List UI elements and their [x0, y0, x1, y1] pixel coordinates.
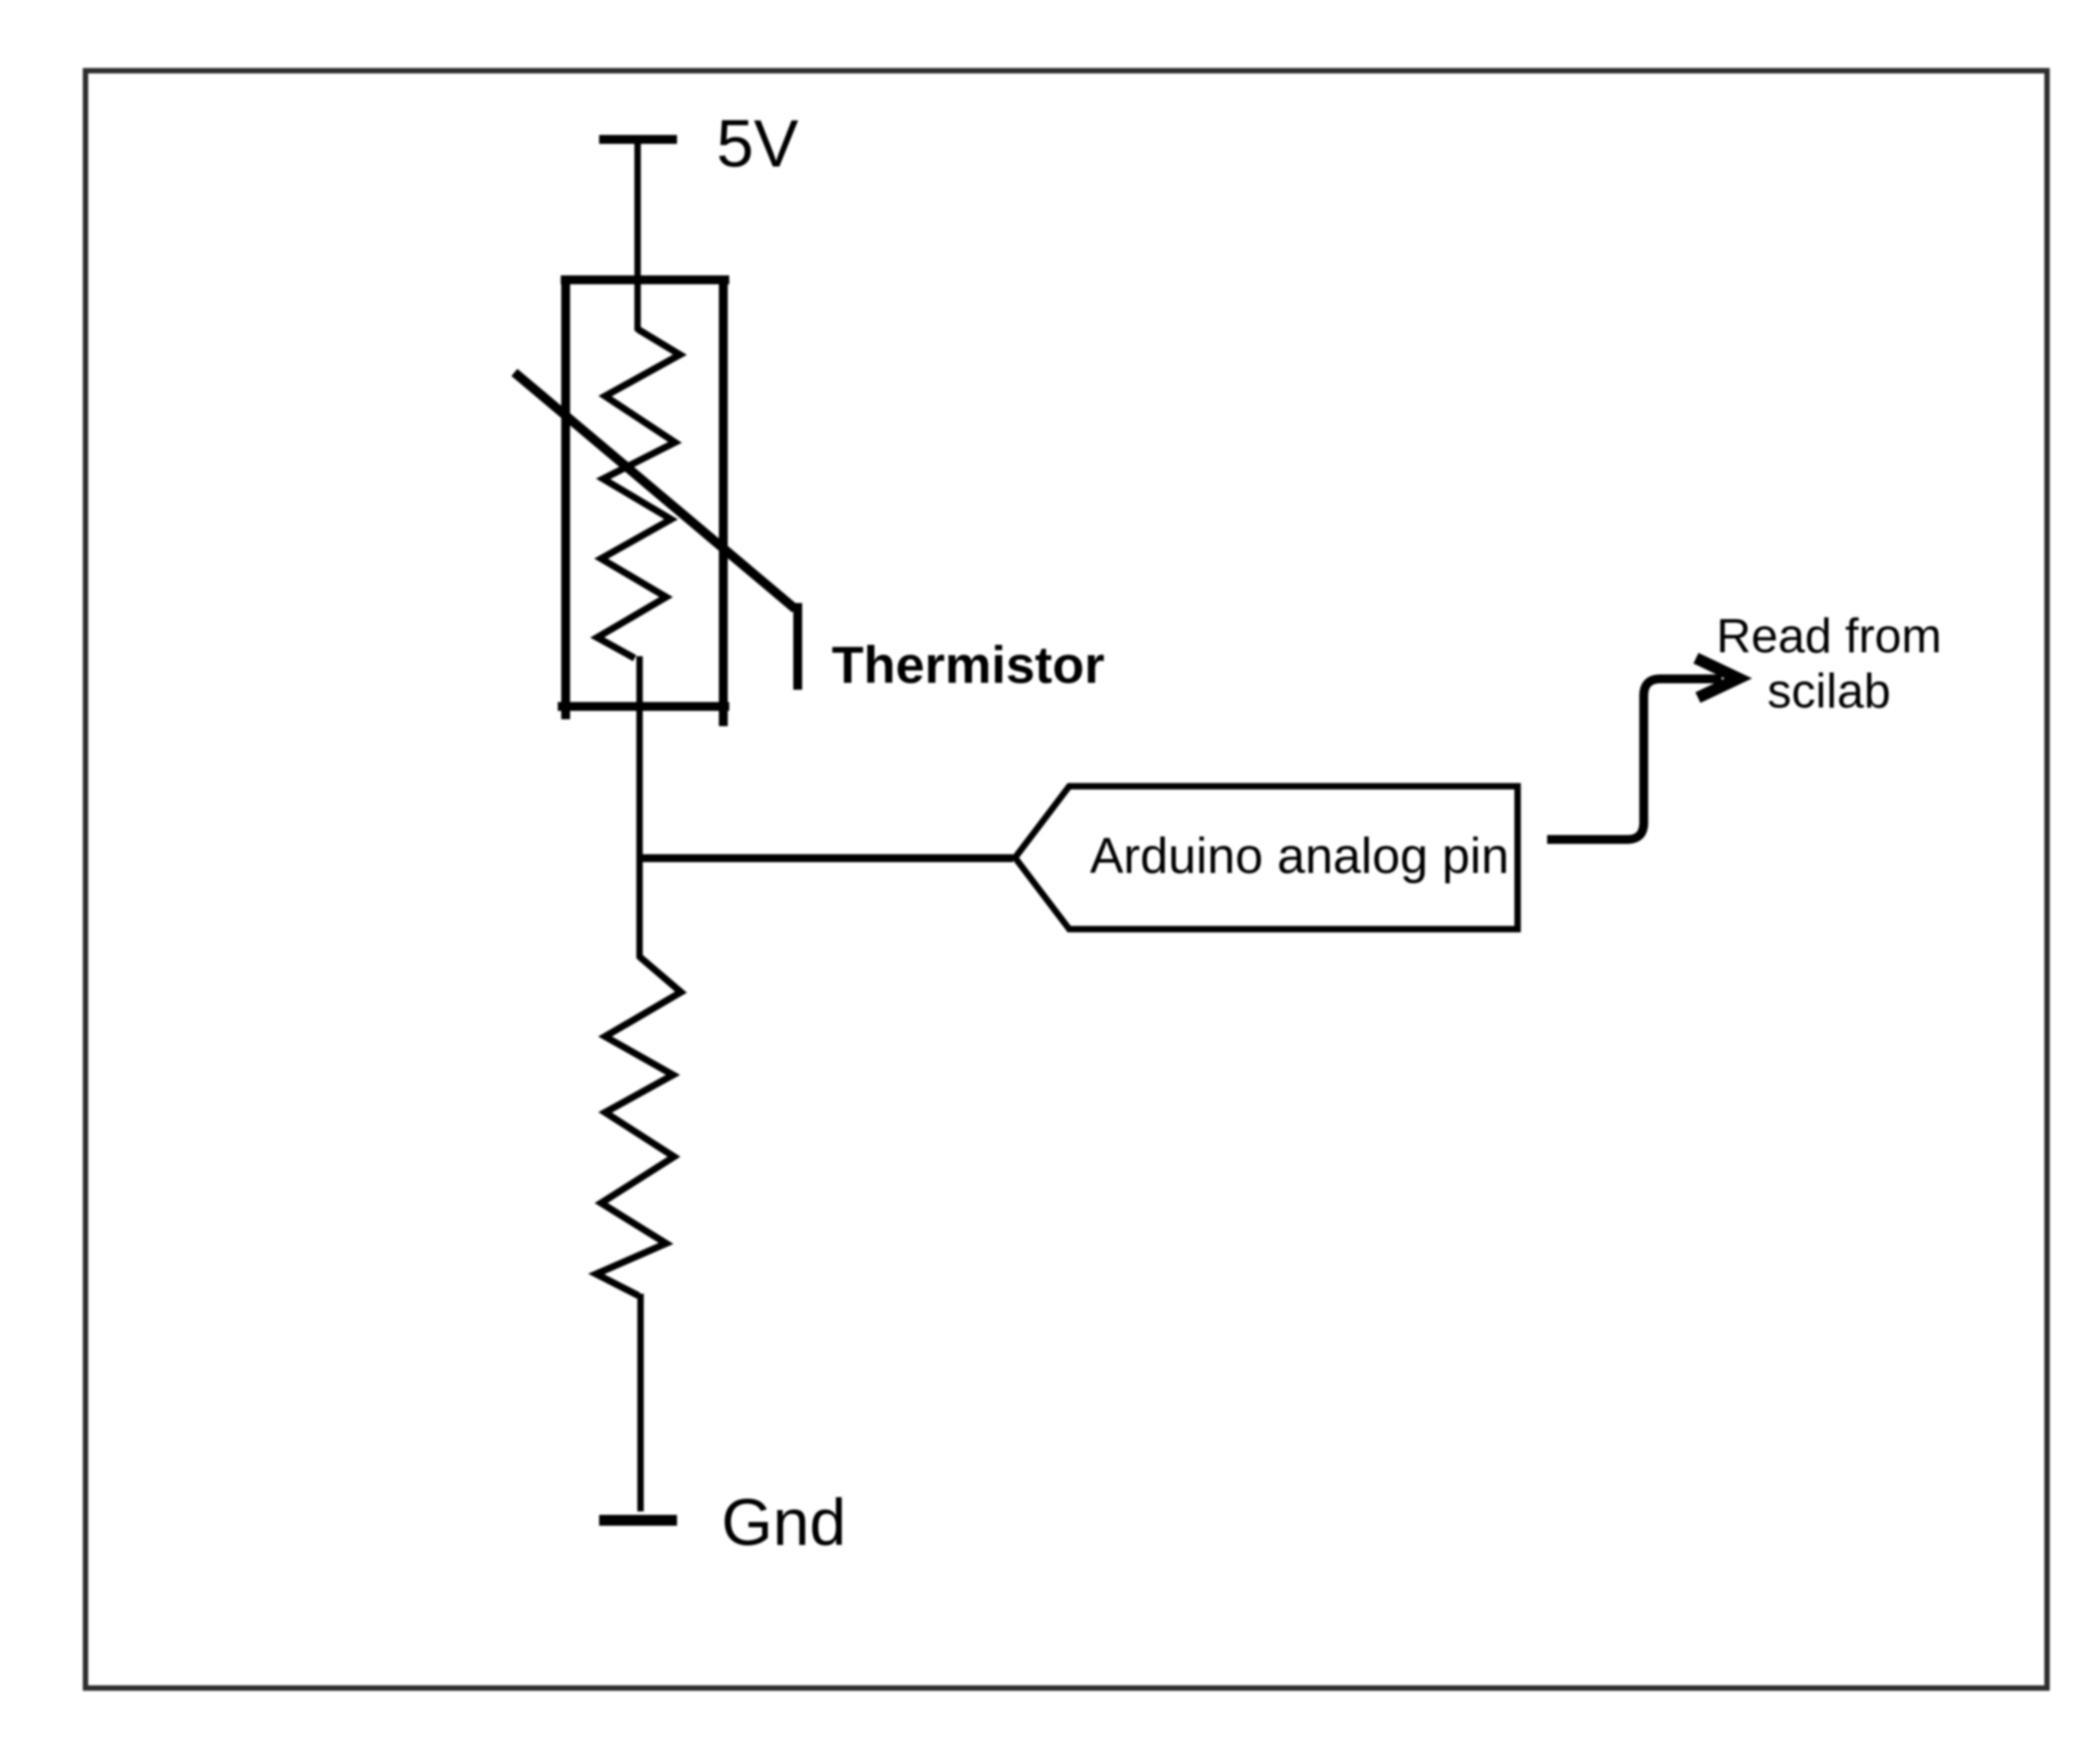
- svg-text:Thermistor: Thermistor: [832, 636, 1105, 695]
- svg-text:Arduino analog pin: Arduino analog pin: [1090, 828, 1509, 884]
- svg-text:scilab: scilab: [1767, 665, 1890, 718]
- svg-text:Gnd: Gnd: [721, 1486, 847, 1560]
- svg-text:5V: 5V: [716, 106, 799, 181]
- svg-text:Read from: Read from: [1717, 610, 1942, 663]
